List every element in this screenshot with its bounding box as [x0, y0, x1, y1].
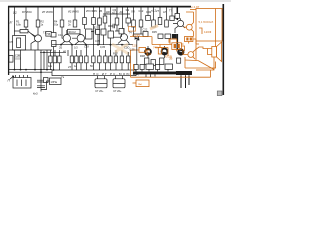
svg-text:ДЯ: ДЯ: [106, 10, 110, 14]
box mid2: [108, 31, 114, 38]
power bus bar (thick): [133, 72, 192, 75]
label P3 box: [46, 32, 51, 37]
orange wire net C: [170, 39, 177, 44]
wire drop C2: [53, 7, 55, 33]
orange transistor T5 circle: [186, 24, 192, 30]
bus pin 3: [188, 75, 190, 85]
wire drop x41: [40, 50, 42, 76]
box below T8 b: [151, 60, 155, 66]
connector X1 pin 3: [25, 80, 27, 87]
box below T8: [145, 58, 149, 64]
orange drop pair a: [130, 64, 132, 77]
wire R4 to T2: [62, 27, 63, 38]
wire drop R4: [61, 7, 63, 20]
orange transformer Tr1 core a: [174, 44, 176, 48]
battery G1 lead b: [104, 76, 106, 79]
svg-text:ЛГ: ЛГ: [10, 21, 14, 25]
svg-text:56: 56: [90, 65, 93, 68]
bus wire lower: [8, 71, 52, 73]
svg-text:П: П: [8, 79, 11, 83]
wire antenna drop: [14, 7, 16, 36]
orange return bus: [131, 70, 211, 77]
svg-text:И2 ИОЮ: И2 ИОЮ: [68, 10, 79, 14]
orange wire net A: [186, 12, 194, 23]
capacitor block C40 side box: [44, 78, 49, 83]
resistor R21: [53, 56, 56, 63]
wire drop R9: [99, 7, 101, 18]
junction dot h52: [43, 51, 45, 53]
box mid1: [101, 29, 106, 35]
speaker B1 feed a: [208, 49, 212, 55]
orange wire x169 up: [169, 39, 177, 43]
wire stub bus a: [136, 69, 168, 71]
resistor R28: [98, 56, 101, 63]
transistor T2 circle: [63, 35, 70, 42]
wire T8 leads: [147, 46, 149, 58]
wire drop R5: [74, 7, 76, 20]
wire R32: [110, 63, 112, 70]
resistor R7: [83, 18, 87, 25]
wire x117 drop: [116, 25, 118, 31]
orange mid wire h36: [130, 37, 152, 45]
connector X1 pin 1: [16, 80, 18, 87]
capacitor block C40 plate bottom: [37, 86, 45, 88]
wire mixer to T1: [28, 31, 35, 37]
wire R33: [127, 52, 129, 70]
connector X1 lead a: [15, 75, 17, 78]
orange meter box top right: [196, 9, 222, 42]
bus tick a: [146, 74, 155, 77]
orange mid wire h44: [152, 44, 172, 46]
resistor R32: [109, 56, 112, 63]
connector X1 lead b: [19, 75, 21, 78]
orange feed vertical: [215, 9, 217, 47]
battery G1 inner line: [95, 83, 107, 85]
band switch S1 body: [52, 70, 136, 76]
svg-text:КГ 20+: КГ 20+: [96, 89, 105, 93]
border right: [222, 4, 224, 95]
resistor R4: [60, 20, 64, 27]
svg-text:91к: 91к: [54, 23, 59, 27]
wire R40 down: [133, 27, 135, 37]
transistor T7 leads: [173, 18, 185, 33]
wire h emitter row: [52, 44, 133, 46]
svg-text:R35: R35: [152, 30, 157, 34]
thick vertical segment: [176, 34, 178, 50]
box x177: [175, 14, 180, 19]
jack X2 body: [50, 78, 62, 85]
scan artifact top gray line: [0, 0, 231, 2]
speaker B1 body: [212, 47, 217, 58]
resistor R27: [92, 56, 95, 63]
svg-text:АО: АО: [120, 10, 124, 14]
box top of Tblock: [165, 34, 171, 38]
resistor R29: [104, 56, 107, 63]
IF coil L1 screen: [13, 36, 26, 51]
resistor R23: [70, 56, 73, 63]
wire R22: [59, 63, 61, 70]
wire mid4: [127, 14, 130, 27]
resistor R41: [139, 20, 143, 27]
small boxes above bus x136: [134, 65, 138, 70]
wire R20: [50, 63, 52, 70]
wire drop C41: [147, 7, 149, 16]
orange wire net D: [177, 46, 185, 52]
resistor R24: [75, 56, 78, 63]
junction dot e2: [71, 44, 73, 46]
transistor T7 circle: [177, 20, 183, 26]
dark smudge text on bus right: [176, 71, 192, 75]
orange note box: [136, 80, 149, 87]
box below T10: [177, 58, 181, 63]
svg-text:110: 110: [147, 52, 152, 56]
resistor R26: [85, 56, 88, 63]
wire drop R44: [166, 7, 168, 20]
svg-text:2Б: 2Б: [59, 45, 62, 49]
svg-text:ПС ИГ РС-ЮОЮ ОЦ: ПС ИГ РС-ЮОЮ ОЦ: [93, 72, 140, 76]
wire mid3: [122, 16, 123, 37]
svg-text:и 4,97: и 4,97: [191, 5, 200, 9]
wire R7 down: [84, 25, 86, 30]
speaker B1 cone: [217, 42, 222, 62]
lower res row: resistor R20: [49, 56, 52, 63]
wire T9 leads: [164, 46, 166, 58]
resistor R40: [132, 20, 136, 27]
filter box Z1: [68, 29, 81, 34]
speaker B1 return wire: [196, 57, 214, 70]
svg-text:12к: 12к: [48, 65, 53, 68]
resistor R5: [73, 20, 77, 27]
bus wire upper: [8, 69, 52, 71]
border top: [8, 6, 191, 8]
svg-text:С22: С22: [143, 28, 148, 32]
orange transistor T6 circle: [188, 52, 194, 58]
box mid4: [126, 18, 130, 23]
battery G2 cell body: [113, 79, 125, 88]
wide box above bus x167: [165, 64, 173, 69]
svg-text:ЗВ: ЗВ: [169, 57, 173, 61]
svg-text:R7 ИОК: R7 ИОК: [22, 10, 32, 14]
svg-text:0,05: 0,05: [100, 45, 106, 49]
resistor R1: [24, 20, 28, 27]
svg-text:ИГ ИОЮ: ИГ ИОЮ: [42, 10, 53, 14]
electrolytic C3: [52, 41, 57, 47]
resistor R0 left: [9, 56, 13, 63]
svg-text:1 11 1 11: 1 11 1 11: [150, 72, 169, 75]
transistor T9 wedge: [163, 52, 166, 55]
resistor R22: [58, 56, 61, 63]
junction dot e1: [60, 44, 62, 46]
orange right net h68: [190, 62, 216, 69]
transistor T1 circle: [35, 35, 42, 42]
capacitor block C40 stem: [40, 76, 42, 92]
junction dot e3: [85, 44, 87, 46]
svg-text:С18: С18: [84, 45, 89, 49]
battery G2 inner line: [113, 83, 125, 85]
IF coil L1 winding: [17, 38, 21, 48]
svg-text:2Б: 2Б: [99, 9, 102, 13]
wire mid h2: [134, 33, 149, 35]
wires R23-25: [72, 45, 81, 70]
transistor T8 circle dark: [145, 49, 151, 55]
resistor R44: [165, 20, 169, 27]
svg-text:С12: С12: [139, 9, 144, 13]
battery G2 lead b: [122, 76, 124, 79]
box top of Tblock2: [172, 34, 177, 38]
wire R8 down: [93, 25, 95, 45]
resistor R8: [92, 18, 96, 25]
orange transformer Tr1 core b: [177, 44, 179, 48]
svg-text:С16: С16: [58, 33, 63, 37]
wire drops to switch: [68, 50, 111, 56]
box x145 mid: [143, 32, 148, 37]
resistor R25: [79, 56, 82, 63]
svg-text:ЛЯ: ЛЯ: [131, 10, 135, 14]
wire drop R43: [159, 7, 161, 18]
orange drop pair b: [133, 64, 135, 71]
IF transformer box: [86, 29, 93, 39]
highlighter smudge top: [150, 26, 158, 30]
right cluster: wire drop R40: [133, 7, 135, 20]
svg-text:У1: У1: [13, 11, 17, 15]
svg-text:120Ф: 120Ф: [204, 30, 212, 34]
battery G2 lead a: [115, 76, 117, 79]
junction dots emitter row: [97, 44, 123, 46]
wires R27-29: [94, 45, 106, 70]
orange wire T6 to speaker: [195, 47, 208, 50]
resistor R2: [36, 20, 40, 27]
box x172: [170, 16, 174, 21]
wires R30-31: [116, 50, 122, 70]
transistor T3 leads: [72, 34, 86, 45]
svg-text:2Т: 2Т: [156, 9, 159, 13]
transistor T8 wedge: [147, 52, 150, 55]
resistor R9: [98, 18, 102, 25]
wire R21 top: [51, 50, 60, 56]
cap C14: [91, 30, 97, 36]
resistor R10: [103, 16, 107, 23]
orange note leader: [133, 82, 137, 84]
wire R9 drop: [99, 25, 101, 45]
terminal pad bottom right: [217, 91, 222, 96]
orange wire mid h50: [131, 50, 151, 64]
coil L1 lead2: [20, 50, 22, 70]
connector X1 lead c: [23, 75, 25, 78]
orange meter link wire: [190, 9, 196, 11]
orange wire Tr1 to T6: [181, 44, 185, 55]
coil L1 lead: [14, 50, 16, 70]
orange out stage left leg: [185, 57, 190, 68]
wire D10: [136, 40, 138, 65]
wire h top mid: [103, 13, 130, 15]
diode D10: [135, 36, 139, 40]
mixer coupling box: [20, 30, 28, 33]
wire drop R1: [25, 7, 27, 20]
svg-text:ФСС2: ФСС2: [69, 30, 77, 34]
orange wire box drop: [196, 41, 198, 61]
svg-text:1ЛПа: 1ЛПа: [51, 80, 58, 84]
wide box above bus x147: [146, 64, 154, 69]
box C2: [51, 33, 56, 38]
wire drop R11: [116, 7, 118, 18]
wire mid2 down: [110, 38, 112, 56]
orange wire upper link: [199, 28, 202, 34]
orange transformer Tr1 frame: [172, 43, 182, 50]
border left: [8, 6, 10, 75]
transistor T3 circle: [77, 35, 84, 42]
svg-text:0,3: 0,3: [74, 45, 78, 49]
svg-text:КГ 20+: КГ 20+: [114, 89, 123, 93]
svg-text:27: 27: [68, 65, 72, 69]
bus pin 2: [185, 75, 187, 88]
resistor R31: [120, 56, 123, 63]
small boxes above bus x156: [156, 65, 160, 70]
svg-text:ПЗ: ПЗ: [47, 32, 51, 36]
wire drop x110: [110, 7, 112, 14]
orange transformer Tr2 core: [186, 38, 188, 41]
svg-text:6,8к: 6,8к: [16, 23, 22, 27]
transistor T9 circle dark: [162, 49, 168, 55]
connector X1 pin 2: [21, 80, 23, 87]
svg-text:и 0,65: и 0,65: [132, 33, 140, 37]
orange transformer Tr2 core b: [190, 38, 192, 41]
wire h52: [40, 52, 66, 69]
wire drop x127: [127, 7, 129, 14]
svg-text:3,9: 3,9: [126, 8, 130, 12]
orange wire Tr2 right: [193, 39, 199, 44]
resistor R30: [114, 56, 117, 63]
cap C10: [108, 24, 115, 31]
wire box mid1 drop: [104, 23, 106, 45]
orange wire Ro1: [159, 45, 161, 48]
wire R2 to T1: [37, 27, 39, 35]
svg-text:пы: пы: [138, 82, 142, 86]
svg-text:С5: С5: [10, 40, 14, 44]
wire drop x172: [171, 7, 173, 16]
wire x110 upper segment: [110, 14, 112, 31]
box mid5: [96, 30, 100, 35]
thick feed wire: [176, 7, 178, 20]
battery G1 lead a: [97, 76, 99, 79]
wire drop x153: [153, 7, 155, 20]
wire cluster v98: [97, 25, 99, 45]
junction dots bus: [14, 69, 55, 73]
bus pin 1: [180, 75, 182, 88]
resistor R42: [152, 20, 156, 27]
cap C17: [115, 29, 122, 35]
transistor T4 circle: [121, 34, 128, 41]
wire node row1 left: [14, 30, 20, 32]
svg-text:Д2: Д2: [94, 26, 98, 30]
box below T9: [160, 58, 164, 64]
svg-text:ООО: ООО: [15, 57, 21, 61]
small boxes above bus x141: [140, 65, 144, 70]
svg-text:4Б: 4Б: [63, 50, 66, 54]
wire drop x47: [46, 50, 48, 70]
box left black small: [158, 34, 163, 38]
jack X2 loop wire: [41, 81, 50, 90]
orange rect small mid: [139, 48, 146, 53]
svg-text:R17: R17: [113, 52, 118, 56]
transistor T1 leads: [31, 34, 38, 51]
wire drop R7: [84, 7, 86, 18]
wire drop x105: [104, 7, 106, 16]
orange diagonal wire: [198, 61, 214, 70]
svg-text:ИЛ ИОЮ: ИЛ ИОЮ: [86, 9, 97, 13]
highlighter smudge mid: [112, 44, 129, 54]
wire drop x122: [122, 7, 124, 16]
transistor T10 circle dark: [177, 48, 184, 55]
wire drop R2: [37, 7, 39, 20]
connector X1 lead d: [27, 75, 29, 78]
resistor R33: [127, 56, 130, 63]
svg-text:и1,2: и1,2: [151, 9, 157, 13]
wire R1 to node: [25, 27, 27, 33]
battery G1 cell body: [95, 79, 107, 88]
orange wire net B: [189, 32, 194, 44]
orange resistor Ro1: [158, 48, 161, 55]
wire h mid left: [9, 49, 52, 51]
orange top small mark: [129, 27, 136, 32]
wire R26: [86, 45, 88, 70]
wire C3 down: [53, 47, 55, 71]
resistor R43: [158, 18, 162, 25]
wire drop R8: [93, 7, 95, 18]
capacitor block C40 plate top: [37, 80, 45, 82]
transistor T2 leads: [61, 30, 72, 45]
svg-text:КнЗ: КнЗ: [33, 92, 38, 96]
box C41: [146, 16, 151, 21]
svg-text:R38: R38: [140, 54, 145, 58]
orange transformer Tr2 frame: [185, 37, 193, 42]
connector X1 body: [13, 78, 31, 89]
svg-text:и2,3: и2,3: [112, 10, 118, 14]
orange out stage bottom line: [185, 59, 196, 62]
orange transistor T5 leads: [184, 23, 194, 32]
svg-text:1к: 1к: [74, 65, 77, 68]
transistor T10 glint: [180, 50, 183, 53]
wire drop R41: [140, 7, 142, 20]
wire T4 collector down: [128, 43, 130, 45]
svg-text:0,25: 0,25: [130, 48, 136, 52]
resistor R11: [115, 18, 119, 25]
transistor T4 leads: [114, 28, 130, 44]
wire R41 down: [140, 27, 142, 34]
orange wire h47: [155, 48, 168, 57]
wire drop x35: [34, 50, 36, 70]
svg-text:5,1 ЮООкб: 5,1 ЮООкб: [199, 20, 214, 24]
orange transistor T6 leads: [185, 50, 195, 59]
box mid3: [119, 29, 124, 34]
connector X1 arrow left: [10, 76, 14, 79]
